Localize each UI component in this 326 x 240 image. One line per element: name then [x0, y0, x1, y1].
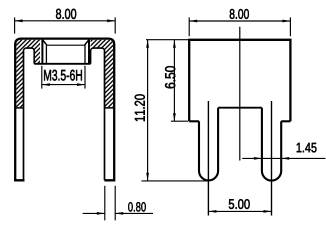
right view: left leg outline	[199, 108, 218, 181]
right view: outer contour	[189, 40, 290, 122]
dimension 0.80 leg thickness	[83, 186, 153, 221]
right view: right leg outline	[262, 108, 281, 181]
right view: step left	[189, 120, 199, 122]
left view: wall inner edge right	[104, 51, 106, 180]
left view: section hatch left wall	[16, 40, 113, 108]
right view: left leg centerline	[207, 101, 209, 216]
left view: collar / hole bottom line	[34, 63, 90, 65]
dimension 1.45 leg width	[242, 157, 325, 159]
left view: thread chamfer left	[42, 40, 47, 46]
dimension 8.00 left view	[15, 17, 116, 33]
left view: wall inner edge left	[23, 51, 25, 180]
left view: thread chamfer right	[85, 40, 90, 46]
left view: thread minor line right	[84, 45, 86, 63]
left view: collar bend dome left	[24, 48, 35, 64]
dimension 5.00 leg pitch	[208, 210, 271, 212]
left view: thread major line left	[41, 40, 43, 64]
right view: main centerline	[239, 27, 241, 161]
left view: chamfer bottom line	[46, 44, 85, 46]
dimension 11.20 height	[142, 40, 210, 181]
thread callout M3.5-6H	[42, 66, 85, 89]
left view: thread major line right	[88, 40, 90, 64]
dimension 8.00 right view	[189, 17, 290, 36]
left view: collar bend dome right	[91, 48, 105, 64]
right view: slot top edge	[218, 107, 262, 109]
left view: hatch bottom line right wall	[105, 107, 115, 109]
left view: thread minor line left	[45, 45, 47, 63]
dimension 6.50 step height	[171, 40, 188, 121]
left view: section hatch right wall	[91, 40, 114, 108]
right view: right leg centerline	[271, 101, 273, 216]
left view: outer contour	[15, 39, 114, 181]
left view: hatch bottom line left wall	[15, 107, 23, 109]
right view: step right	[281, 120, 290, 122]
